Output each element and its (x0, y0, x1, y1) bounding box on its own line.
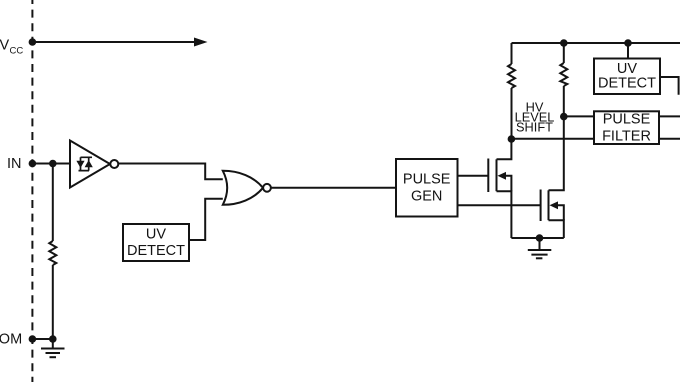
wire junction to PULSE FILTER upper input (564, 115, 594, 117)
NOR gate G1 (223, 171, 263, 205)
svg-text:DETECT: DETECT (598, 76, 656, 92)
NOR output bubble (263, 184, 271, 192)
wire VCC arrow (32, 38, 207, 47)
node R3 drain junction (560, 113, 568, 121)
svg-text:GEN: GEN (411, 189, 442, 205)
svg-text:UV: UV (146, 227, 166, 243)
svg-text:PULSE: PULSE (403, 172, 451, 188)
wire source rail (511, 237, 563, 239)
wire PULSE FILTER output upper (659, 115, 680, 117)
svg-text:COM: COM (0, 332, 22, 348)
wire UV DETECT to NOR input B (189, 199, 223, 240)
wire junction to PULSE FILTER lower input (511, 138, 594, 140)
block PULSE FILTER (594, 111, 659, 144)
ground at COM (41, 339, 65, 357)
wire PULSE FILTER output lower (659, 138, 680, 140)
pin label VCC (0, 38, 23, 57)
IC boundary dashed line (31, 0, 33, 382)
wire rail to UV DETECT (627, 43, 629, 58)
node source rail (536, 234, 544, 242)
svg-text:CC: CC (10, 46, 24, 57)
inverter output bubble (110, 160, 118, 168)
block PULSE GEN (396, 159, 458, 217)
ground at sources (528, 238, 552, 258)
block UV DETECT low side (123, 224, 189, 261)
wire IN (32, 163, 70, 165)
node COM boundary (29, 335, 37, 343)
node COM junction (49, 335, 57, 343)
transistor Q1 (488, 140, 511, 238)
label HV LEVEL SHIFT (515, 100, 555, 135)
wire PULSE GEN to Q1 gate (458, 175, 489, 177)
svg-text:SHIFT: SHIFT (516, 120, 553, 135)
node VB rail UV DETECT (624, 39, 632, 47)
resistor R3 (560, 43, 567, 117)
svg-text:V: V (0, 38, 10, 54)
node IN junction (49, 160, 57, 168)
resistor R1 (49, 164, 56, 340)
block UV DETECT high side (594, 59, 660, 95)
transistor Q2 (541, 117, 564, 238)
svg-text:IN: IN (7, 156, 22, 172)
node VB rail R3 (560, 39, 568, 47)
wire VB rail (512, 42, 680, 44)
wire PULSE GEN to Q2 gate (458, 204, 541, 206)
schmitt inverter U1 (70, 141, 110, 188)
resistor R2 (508, 43, 515, 139)
wire NOR to PULSE GEN (271, 187, 396, 189)
wire COM (32, 338, 52, 340)
svg-text:PULSE: PULSE (603, 111, 651, 127)
svg-text:UV: UV (617, 61, 637, 77)
node VCC (29, 38, 37, 46)
svg-text:DETECT: DETECT (127, 243, 185, 259)
node IN boundary (29, 160, 37, 168)
svg-text:FILTER: FILTER (602, 128, 651, 144)
wire inverter to NOR input A (118, 164, 223, 180)
wire UV DETECT output (660, 77, 679, 95)
node R2 drain junction (508, 135, 516, 143)
